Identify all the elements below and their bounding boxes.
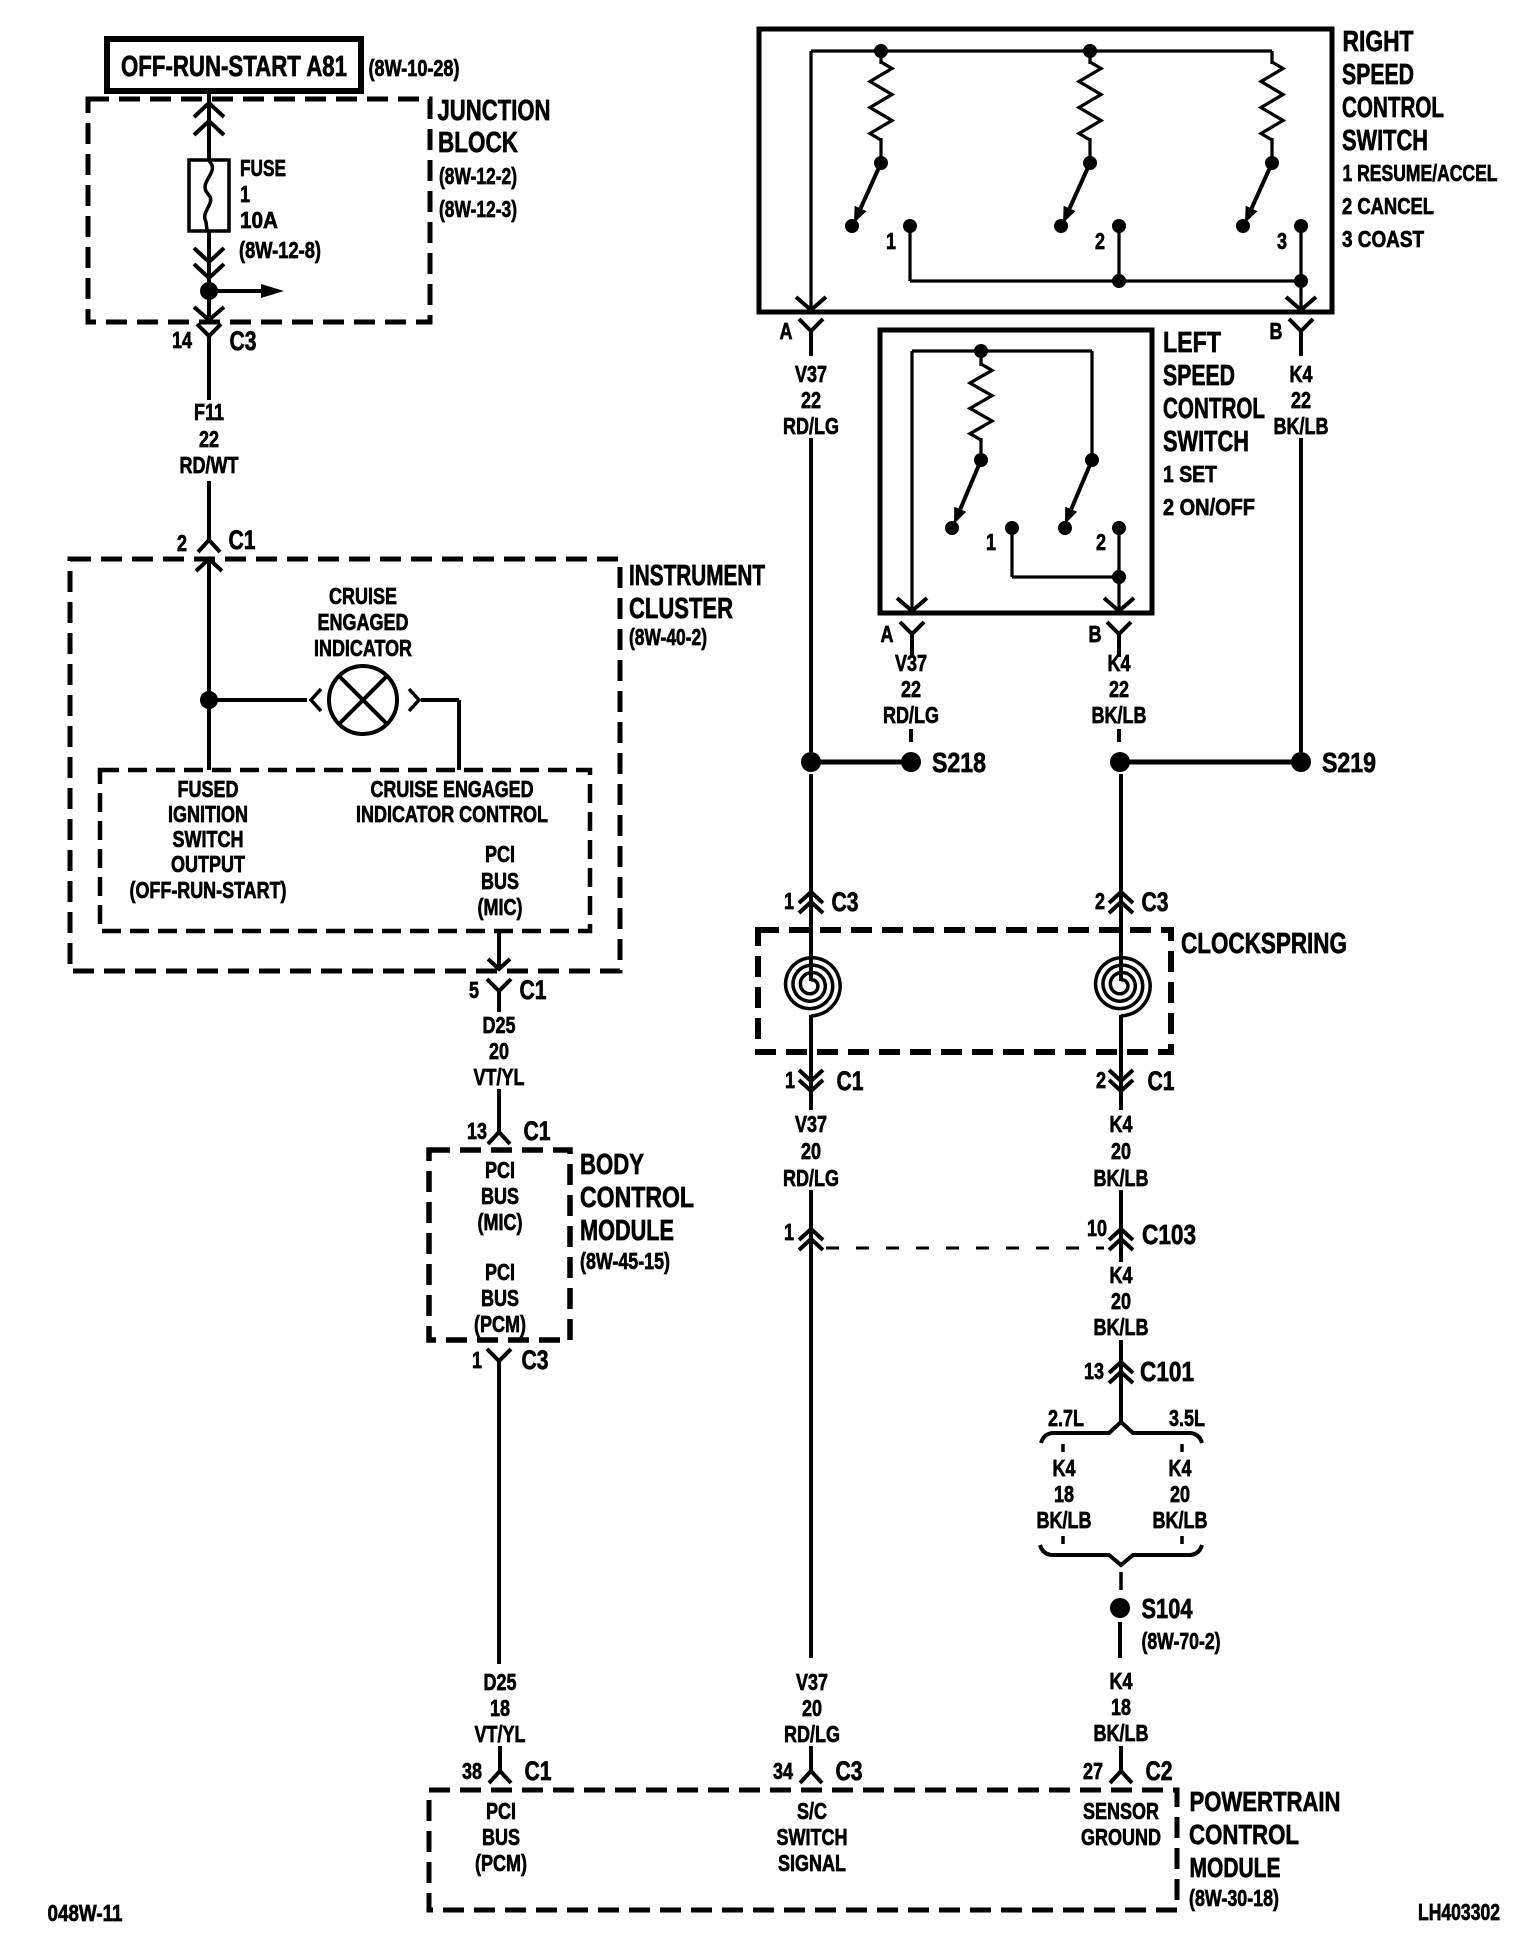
svg-text:13: 13	[1084, 1358, 1104, 1384]
svg-text:2: 2	[1096, 1067, 1106, 1093]
svg-text:C101: C101	[1140, 1356, 1194, 1387]
svg-text:C1: C1	[837, 1066, 864, 1096]
svg-text:S104: S104	[1142, 1593, 1193, 1624]
svg-text:C3: C3	[836, 1756, 863, 1786]
svg-text:(MIC): (MIC)	[478, 894, 523, 920]
svg-text:22: 22	[1109, 676, 1129, 702]
svg-text:ENGAGED: ENGAGED	[318, 609, 409, 635]
svg-text:CRUISE: CRUISE	[329, 583, 397, 609]
svg-text:SWITCH: SWITCH	[173, 826, 244, 852]
svg-text:BUS: BUS	[482, 1824, 520, 1850]
svg-text:(PCM): (PCM)	[474, 1311, 526, 1337]
svg-text:K4: K4	[1108, 650, 1131, 676]
svg-text:F11: F11	[194, 399, 224, 425]
svg-text:34: 34	[773, 1758, 793, 1784]
svg-text:V37: V37	[795, 361, 827, 387]
svg-text:1: 1	[240, 181, 250, 207]
svg-text:PCI: PCI	[485, 841, 515, 867]
svg-text:2: 2	[1096, 529, 1106, 555]
svg-text:(8W-12-8): (8W-12-8)	[239, 237, 321, 263]
svg-text:K4: K4	[1110, 1111, 1133, 1137]
svg-text:18: 18	[490, 1695, 510, 1721]
svg-text:VT/YL: VT/YL	[475, 1721, 526, 1747]
svg-text:PCI: PCI	[486, 1798, 516, 1824]
svg-text:RD/LG: RD/LG	[783, 1165, 839, 1191]
svg-text:V37: V37	[895, 650, 927, 676]
svg-text:2: 2	[177, 530, 187, 556]
svg-text:BK/LB: BK/LB	[1094, 1314, 1149, 1340]
svg-text:CRUISE ENGAGED: CRUISE ENGAGED	[371, 776, 534, 802]
svg-text:INSTRUMENT: INSTRUMENT	[629, 560, 765, 592]
svg-text:MODULE: MODULE	[1190, 1852, 1281, 1883]
svg-text:C1: C1	[525, 1756, 552, 1786]
svg-text:C1: C1	[524, 1116, 551, 1146]
svg-text:18: 18	[1111, 1694, 1131, 1720]
svg-text:CONTROL: CONTROL	[580, 1182, 694, 1214]
svg-text:BUS: BUS	[481, 1183, 519, 1209]
svg-text:20: 20	[802, 1695, 822, 1721]
svg-text:V37: V37	[795, 1111, 827, 1137]
svg-text:K4: K4	[1110, 1262, 1133, 1288]
svg-text:C103: C103	[1142, 1219, 1196, 1250]
svg-text:10: 10	[1087, 1215, 1107, 1241]
svg-text:S218: S218	[932, 747, 986, 778]
svg-text:C1: C1	[520, 975, 547, 1005]
svg-text:BK/LB: BK/LB	[1094, 1165, 1149, 1191]
svg-text:OFF-RUN-START A81: OFF-RUN-START A81	[121, 51, 347, 83]
svg-text:14: 14	[172, 327, 192, 353]
svg-text:A: A	[780, 318, 793, 344]
svg-text:C3: C3	[230, 326, 257, 356]
svg-text:RIGHT: RIGHT	[1343, 26, 1414, 58]
svg-text:PCI: PCI	[485, 1259, 515, 1285]
svg-text:(8W-12-2): (8W-12-2)	[439, 163, 517, 189]
svg-text:2.7L: 2.7L	[1048, 1405, 1084, 1431]
svg-text:1: 1	[472, 1347, 482, 1373]
svg-text:K4: K4	[1290, 361, 1313, 387]
svg-text:C2: C2	[1146, 1756, 1173, 1786]
svg-text:1 RESUME/ACCEL: 1 RESUME/ACCEL	[1343, 160, 1498, 186]
svg-text:1: 1	[785, 1067, 795, 1093]
svg-text:CONTROL: CONTROL	[1189, 1819, 1299, 1850]
svg-text:22: 22	[1291, 387, 1311, 413]
svg-text:3: 3	[1277, 228, 1287, 254]
svg-text:LH403302: LH403302	[1418, 1899, 1500, 1925]
svg-text:S/C: S/C	[797, 1798, 827, 1824]
svg-text:3.5L: 3.5L	[1169, 1405, 1205, 1431]
svg-text:SENSOR: SENSOR	[1083, 1798, 1159, 1824]
svg-text:(OFF-RUN-START): (OFF-RUN-START)	[130, 877, 287, 903]
svg-text:BODY: BODY	[580, 1149, 644, 1181]
svg-text:20: 20	[1111, 1288, 1131, 1314]
svg-text:BK/LB: BK/LB	[1094, 1720, 1149, 1746]
svg-text:RD/LG: RD/LG	[883, 702, 939, 728]
svg-text:(8W-10-28): (8W-10-28)	[369, 55, 460, 81]
svg-text:INDICATOR: INDICATOR	[314, 635, 412, 661]
svg-text:BK/LB: BK/LB	[1153, 1507, 1208, 1533]
svg-text:CLOCKSPRING: CLOCKSPRING	[1181, 928, 1347, 960]
svg-text:INDICATOR CONTROL: INDICATOR CONTROL	[356, 801, 548, 827]
svg-text:048W-11: 048W-11	[48, 1900, 123, 1926]
svg-text:22: 22	[801, 387, 821, 413]
svg-text:1 SET: 1 SET	[1163, 461, 1217, 487]
svg-text:(8W-30-18): (8W-30-18)	[1189, 1885, 1279, 1911]
svg-text:1: 1	[986, 529, 996, 555]
svg-text:(8W-45-15): (8W-45-15)	[580, 1248, 670, 1274]
svg-text:22: 22	[199, 426, 219, 452]
svg-text:BUS: BUS	[481, 868, 519, 894]
svg-text:V37: V37	[796, 1669, 828, 1695]
svg-text:13: 13	[467, 1118, 487, 1144]
svg-text:K4: K4	[1110, 1668, 1133, 1694]
svg-text:2 ON/OFF: 2 ON/OFF	[1163, 494, 1255, 520]
svg-text:POWERTRAIN: POWERTRAIN	[1190, 1786, 1341, 1817]
svg-text:LEFT: LEFT	[1163, 327, 1221, 359]
svg-text:B: B	[1270, 318, 1283, 344]
svg-text:D25: D25	[484, 1669, 517, 1695]
svg-text:GROUND: GROUND	[1081, 1824, 1161, 1850]
svg-text:MODULE: MODULE	[580, 1215, 674, 1247]
svg-text:(PCM): (PCM)	[475, 1850, 527, 1876]
svg-text:(8W-40-2): (8W-40-2)	[629, 624, 707, 650]
svg-text:1: 1	[784, 888, 794, 914]
svg-text:1: 1	[784, 1219, 794, 1245]
svg-text:SWITCH: SWITCH	[1342, 125, 1428, 157]
svg-text:(8W-12-3): (8W-12-3)	[439, 196, 517, 222]
svg-text:(MIC): (MIC)	[478, 1209, 523, 1235]
svg-text:BK/LB: BK/LB	[1092, 702, 1147, 728]
svg-text:IGNITION: IGNITION	[168, 801, 248, 827]
svg-text:2 CANCEL: 2 CANCEL	[1342, 193, 1434, 219]
svg-text:D25: D25	[483, 1012, 516, 1038]
svg-text:SWITCH: SWITCH	[1163, 426, 1249, 458]
svg-text:FUSE: FUSE	[240, 155, 286, 181]
svg-text:BK/LB: BK/LB	[1274, 413, 1329, 439]
svg-text:BLOCK: BLOCK	[438, 127, 518, 159]
svg-text:SWITCH: SWITCH	[777, 1824, 848, 1850]
svg-text:1: 1	[886, 228, 896, 254]
svg-text:PCI: PCI	[485, 1157, 515, 1183]
svg-text:2: 2	[1095, 888, 1105, 914]
svg-text:B: B	[1089, 621, 1102, 647]
svg-text:FUSED: FUSED	[178, 776, 239, 802]
svg-text:VT/YL: VT/YL	[474, 1064, 525, 1090]
svg-text:5: 5	[469, 977, 479, 1003]
svg-text:BUS: BUS	[481, 1285, 519, 1311]
svg-text:3 COAST: 3 COAST	[1342, 226, 1424, 252]
svg-text:SIGNAL: SIGNAL	[778, 1850, 846, 1876]
svg-text:RD/LG: RD/LG	[783, 413, 839, 439]
svg-text:20: 20	[1111, 1138, 1131, 1164]
svg-text:18: 18	[1054, 1481, 1074, 1507]
svg-text:C1: C1	[229, 525, 256, 555]
svg-text:K4: K4	[1053, 1455, 1076, 1481]
svg-text:S219: S219	[1322, 747, 1376, 778]
svg-text:20: 20	[801, 1138, 821, 1164]
svg-text:JUNCTION: JUNCTION	[438, 95, 551, 127]
svg-text:20: 20	[1170, 1481, 1190, 1507]
svg-text:C3: C3	[1142, 887, 1169, 917]
svg-text:38: 38	[462, 1758, 482, 1784]
svg-text:22: 22	[901, 676, 921, 702]
svg-text:C3: C3	[832, 887, 859, 917]
svg-text:RD/WT: RD/WT	[180, 452, 239, 478]
svg-text:SPEED: SPEED	[1342, 59, 1414, 91]
svg-text:OUTPUT: OUTPUT	[171, 851, 245, 877]
svg-text:(8W-70-2): (8W-70-2)	[1142, 1628, 1221, 1654]
svg-text:C3: C3	[522, 1345, 549, 1375]
svg-text:CONTROL: CONTROL	[1342, 92, 1444, 124]
svg-text:10A: 10A	[240, 207, 278, 233]
svg-text:27: 27	[1083, 1758, 1103, 1784]
svg-text:RD/LG: RD/LG	[784, 1721, 840, 1747]
svg-text:CLUSTER: CLUSTER	[629, 593, 733, 625]
svg-text:CONTROL: CONTROL	[1163, 393, 1265, 425]
svg-text:BK/LB: BK/LB	[1037, 1507, 1092, 1533]
svg-text:A: A	[881, 621, 894, 647]
svg-text:K4: K4	[1169, 1455, 1192, 1481]
svg-text:2: 2	[1095, 228, 1105, 254]
svg-text:20: 20	[489, 1038, 509, 1064]
svg-text:C1: C1	[1148, 1066, 1175, 1096]
svg-text:SPEED: SPEED	[1163, 360, 1235, 392]
